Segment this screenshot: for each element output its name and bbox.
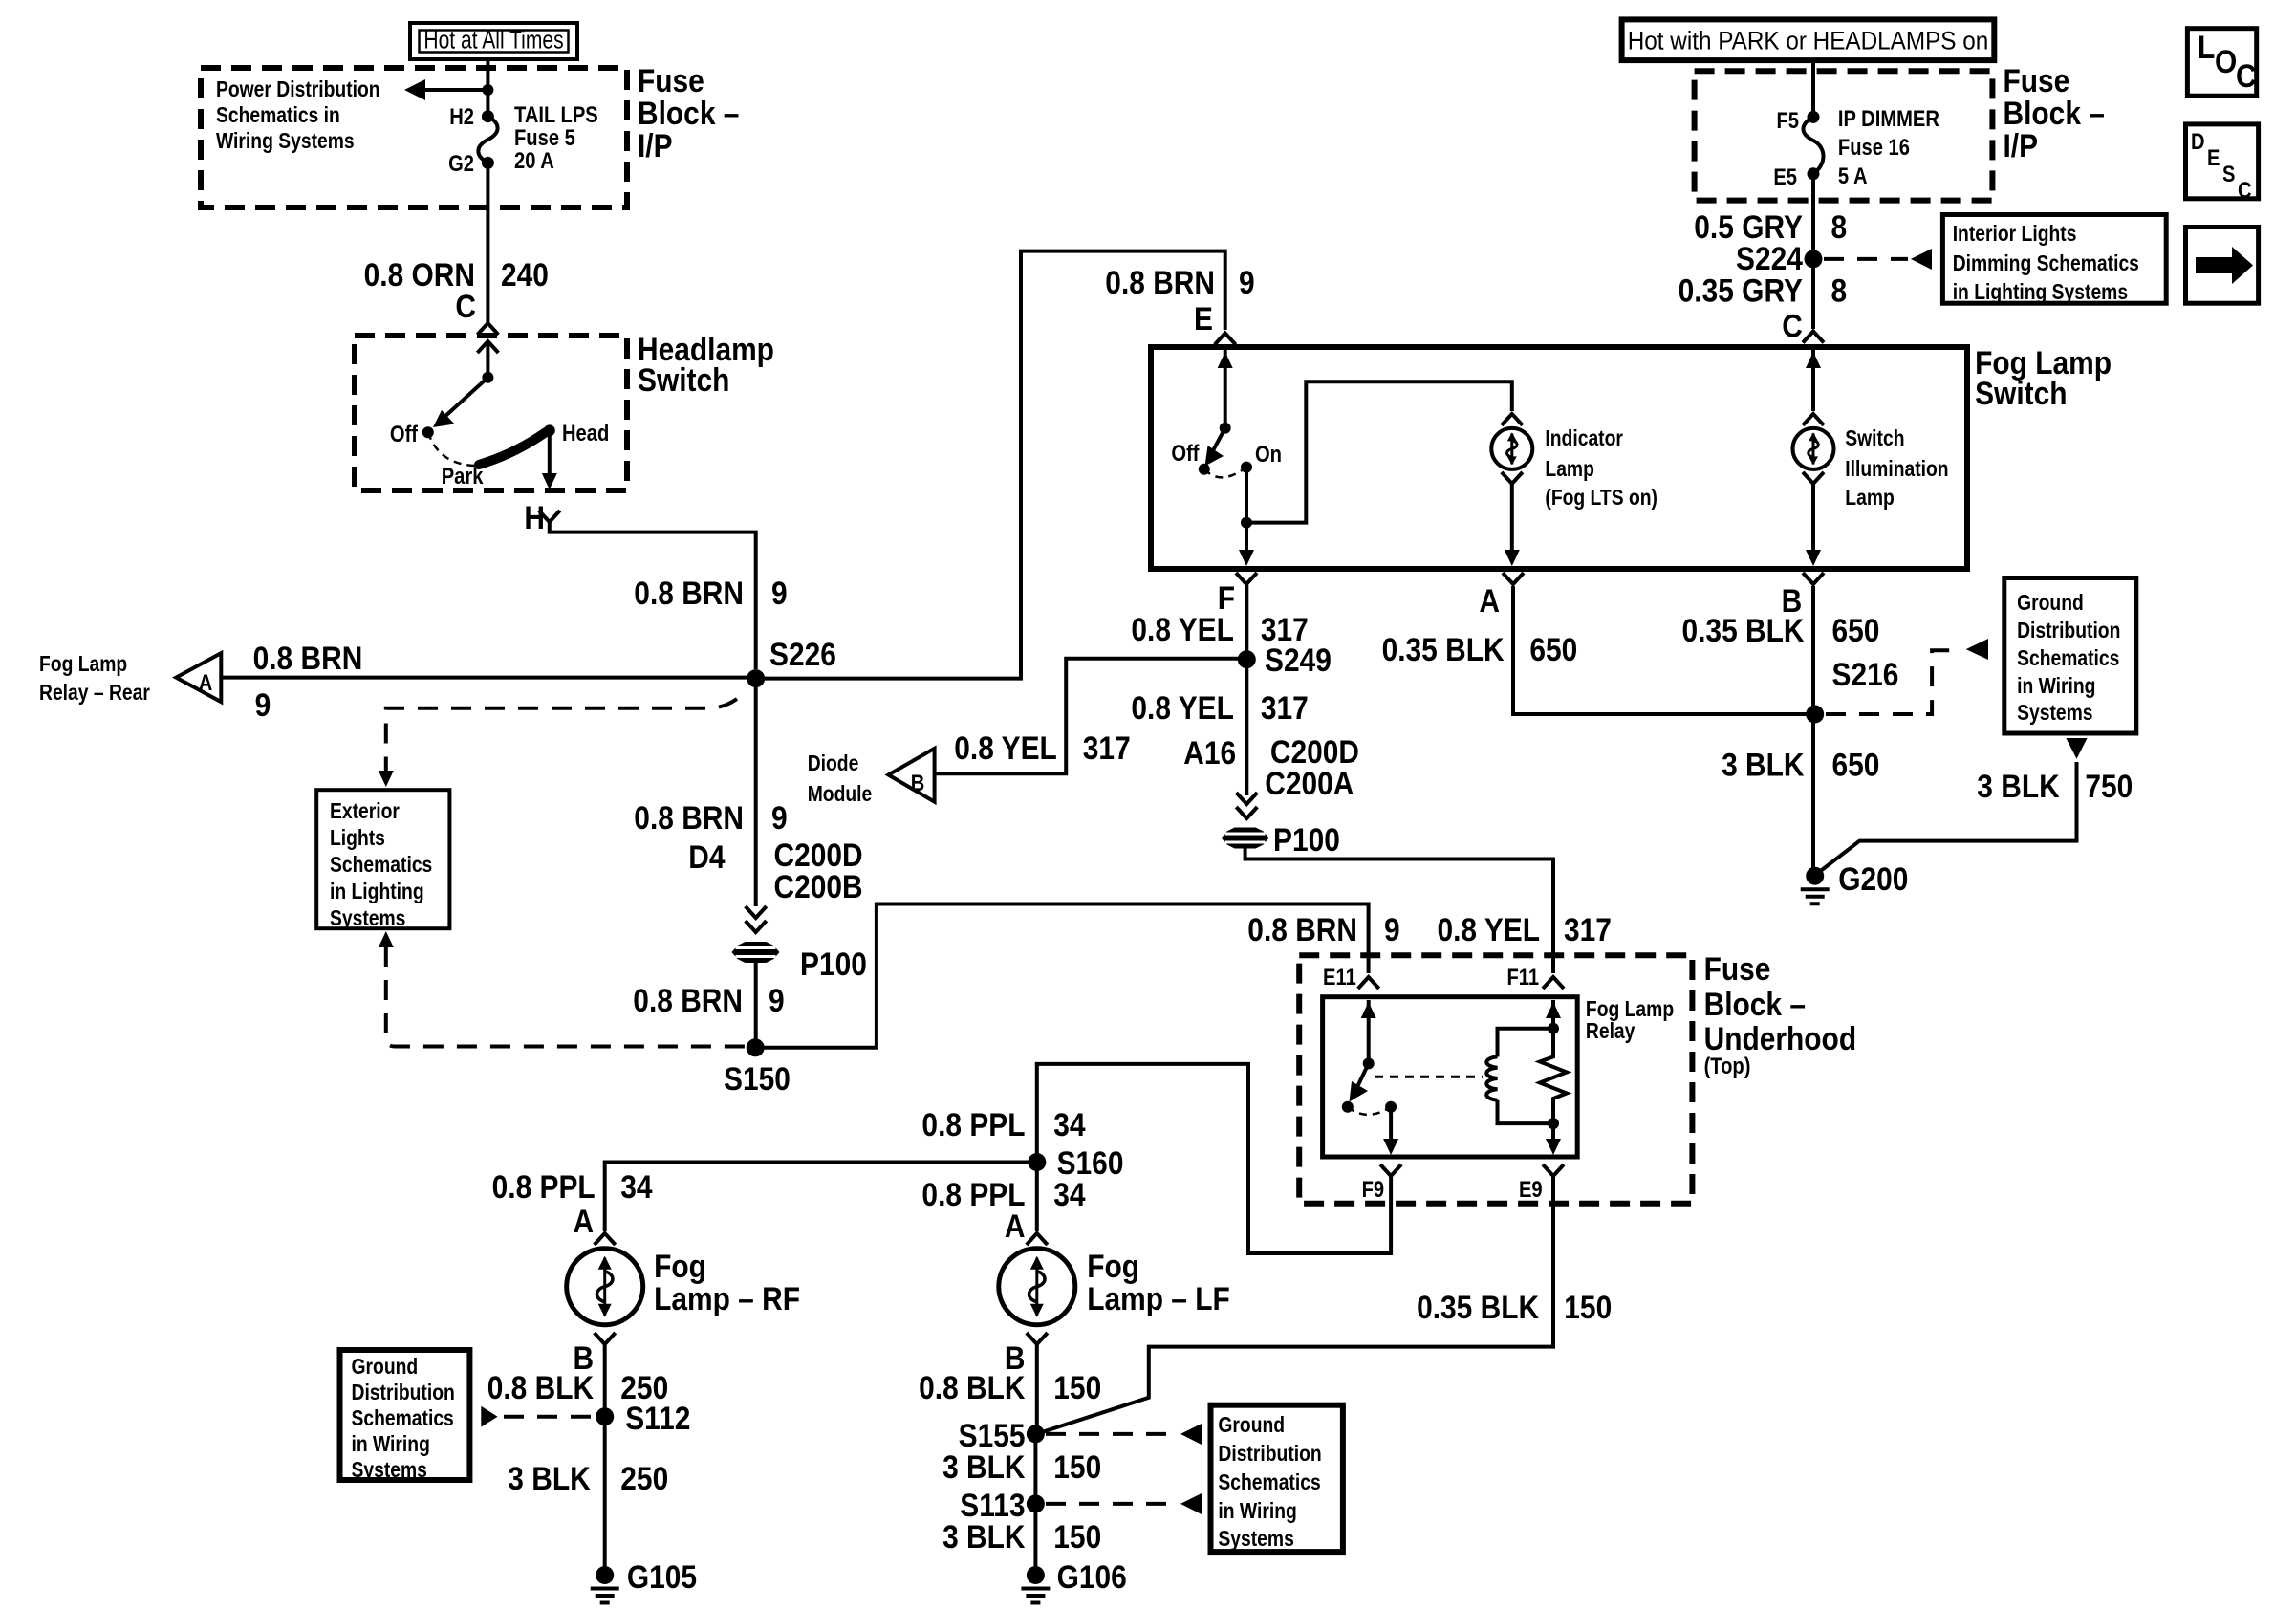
svg-text:Schematics: Schematics: [330, 854, 432, 878]
svg-text:O: O: [2215, 43, 2237, 79]
wire: S226 to fog lamp relay rear: [221, 676, 747, 680]
svg-text:0.8 BRN: 0.8 BRN: [634, 575, 744, 611]
wire: fuse E5 down to switch pin C: [1811, 174, 1815, 329]
svg-text:150: 150: [1053, 1369, 1101, 1405]
svg-text:E11: E11: [1323, 964, 1356, 990]
label: Fog Lamp - LF: [1087, 1248, 1230, 1316]
svg-text:On: On: [1255, 441, 1282, 467]
wire: fuse output down to headlamp switch: [486, 163, 489, 322]
splice S216: [1806, 656, 1898, 723]
label: 0.8 BRN 9 (relay rear feed): [253, 640, 363, 723]
svg-text:Ground: Ground: [352, 1356, 419, 1380]
svg-text:Schematics: Schematics: [2017, 647, 2119, 671]
relay coil: [1486, 1023, 1559, 1129]
note: Indicator Lamp (Fog LTS on): [1545, 427, 1657, 511]
svg-text:Relay: Relay: [1586, 1020, 1635, 1044]
note box: Ground Distribution Schematics in Wiring Systems (bottom left): [340, 1350, 470, 1482]
label: 0.8 PPL 34 (S160 to LF): [921, 1176, 1085, 1212]
wire: LF lamp down to S155: [1035, 1344, 1039, 1430]
wire: P100 to S150: [754, 963, 758, 1044]
svg-text:L: L: [2198, 29, 2215, 65]
svg-text:G200: G200: [1838, 860, 1908, 897]
svg-text:(Top): (Top): [1704, 1053, 1751, 1078]
dashed ref: S224 to interior lights dimming: [1824, 249, 1932, 270]
svg-text:8: 8: [1831, 272, 1848, 309]
svg-text:240: 240: [501, 256, 549, 293]
svg-text:B: B: [911, 770, 925, 795]
wire: S226 down to P100: [754, 679, 758, 906]
connector C200D/C200B chevrons: [746, 906, 767, 932]
svg-text:G106: G106: [1057, 1558, 1127, 1595]
splice S113: [960, 1487, 1045, 1523]
svg-text:Fog Lamp: Fog Lamp: [1586, 998, 1674, 1022]
wire: S155 to S113: [1033, 1434, 1037, 1501]
svg-text:IP DIMMER: IP DIMMER: [1838, 105, 1939, 131]
pin E11: [1323, 964, 1379, 990]
fuse: TAIL LPS Fuse 5 20 A: [448, 101, 598, 176]
dashed ref: S150 to exterior lights schematics: [379, 931, 747, 1047]
svg-text:Systems: Systems: [2017, 702, 2092, 726]
label: 3 BLK 750: [1977, 768, 2133, 804]
svg-text:Fog: Fog: [654, 1248, 706, 1284]
pin C fog lamp switch: [1782, 308, 1824, 344]
wire: C branch down to illumination lamp: [1806, 350, 1821, 411]
svg-text:0.8 YEL: 0.8 YEL: [1437, 911, 1540, 947]
label: Fuse Block - Underhood (Top): [1704, 950, 1857, 1078]
relay contact right to F9: [1383, 1101, 1398, 1155]
svg-text:Lamp: Lamp: [1845, 487, 1895, 511]
svg-text:Lights: Lights: [330, 827, 385, 851]
svg-text:34: 34: [620, 1168, 652, 1205]
svg-text:Park: Park: [442, 463, 484, 489]
wire: S112 to G105: [603, 1417, 607, 1568]
note: Fog Lamp Relay: [1586, 998, 1674, 1044]
label: 0.8 YEL 317 (F11 feed): [1437, 911, 1611, 947]
svg-text:9: 9: [771, 799, 788, 836]
label: 0.5 GRY 8: [1694, 208, 1847, 245]
svg-text:Fuse 16: Fuse 16: [1838, 134, 1910, 160]
svg-text:9: 9: [769, 982, 785, 1018]
svg-text:0.8 BRN: 0.8 BRN: [633, 982, 743, 1018]
wire: S150 to E11 fuse block underhood: [755, 904, 1368, 1048]
wire: into switch common: [482, 344, 493, 383]
pin E9: [1519, 1164, 1564, 1202]
splice S112: [596, 1400, 690, 1436]
pin H2: [449, 103, 494, 129]
svg-text:650: 650: [1832, 612, 1880, 648]
svg-text:0.8 BLK: 0.8 BLK: [919, 1369, 1025, 1405]
fog lamp RF: [567, 1249, 643, 1325]
label: Fog Lamp - RF: [654, 1248, 800, 1316]
label: Fog Lamp Switch: [1975, 344, 2112, 411]
splice S150: [724, 1038, 791, 1097]
connector C200D/C200A chevrons: [1236, 793, 1257, 818]
wire: header into fuse F5: [1811, 60, 1815, 117]
svg-text:0.8 YEL: 0.8 YEL: [1131, 689, 1234, 726]
svg-text:Exterior: Exterior: [330, 800, 400, 824]
label Park: [442, 463, 484, 489]
svg-text:C: C: [1782, 308, 1803, 344]
svg-text:Hot with PARK or HEADLAMPS on: Hot with PARK or HEADLAMPS on: [1628, 27, 1988, 54]
note: Power Distribution Schematics in Wiring Systems: [216, 78, 380, 154]
svg-text:20 A: 20 A: [514, 147, 554, 173]
pin F11: [1506, 964, 1564, 990]
wire: junction down to pin F with arrow: [1239, 523, 1254, 566]
svg-text:0.8 BLK: 0.8 BLK: [487, 1369, 594, 1405]
svg-text:F: F: [1218, 579, 1235, 616]
label: 3 BLK 650: [1722, 747, 1879, 783]
label: 0.35 GRY 8: [1679, 272, 1847, 309]
pin A fog lamp LF: [1005, 1207, 1048, 1245]
label: 0.8 YEL 317 (S249 down): [1131, 689, 1308, 726]
svg-text:250: 250: [620, 1460, 668, 1496]
svg-text:150: 150: [1564, 1289, 1612, 1325]
svg-text:in Wiring: in Wiring: [352, 1433, 430, 1457]
ref box DESC: [2186, 124, 2259, 204]
svg-text:8: 8: [1831, 208, 1848, 245]
relay switch arm E11: [1350, 1000, 1376, 1102]
pass-through grommet P100 (right): [1222, 821, 1340, 858]
svg-text:Switch: Switch: [1845, 427, 1904, 451]
pin F5: [1776, 107, 1819, 133]
svg-text:Wiring Systems: Wiring Systems: [216, 130, 355, 154]
svg-text:Lamp – RF: Lamp – RF: [654, 1280, 800, 1316]
pin H: [524, 499, 559, 535]
relay contact left: [1342, 1101, 1354, 1113]
svg-text:9: 9: [1239, 264, 1255, 300]
svg-text:A16: A16: [1183, 734, 1236, 771]
pin E fog lamp switch: [1194, 300, 1236, 344]
wire: pin B down to G200: [1811, 586, 1815, 868]
label: 3 BLK 150 (S155-S113): [942, 1448, 1101, 1485]
svg-text:317: 317: [1564, 911, 1612, 947]
label: 0.8 YEL 317 (diode module): [954, 729, 1130, 766]
svg-text:317: 317: [1083, 729, 1131, 766]
svg-text:0.8 YEL: 0.8 YEL: [1131, 611, 1234, 647]
wire: G200 branch to ground distribution box: [1818, 738, 2088, 873]
wire: S160 across to fog lamp RF: [605, 1163, 1037, 1232]
svg-text:Schematics: Schematics: [1218, 1471, 1320, 1495]
svg-text:F5: F5: [1776, 107, 1799, 133]
svg-text:0.35 GRY: 0.35 GRY: [1679, 272, 1803, 309]
svg-text:S150: S150: [724, 1060, 791, 1097]
svg-text:G2: G2: [448, 150, 474, 176]
label: 3 BLK 250: [508, 1460, 668, 1496]
wire: switch pin F down through S249 to C200: [1245, 585, 1248, 795]
label: 0.8 BLK 150: [919, 1369, 1101, 1405]
label: 0.8 BLK 250: [487, 1369, 668, 1405]
label: 0.8 BRN 9 (to switch E): [1105, 264, 1254, 300]
fuse block I/P dashed box (right): [1695, 71, 1993, 200]
svg-text:C200A: C200A: [1265, 765, 1354, 801]
svg-text:(Fog LTS on): (Fog LTS on): [1545, 487, 1657, 511]
wire: illumination lamp down to pin B with arrow: [1806, 484, 1821, 566]
svg-text:0.8 BRN: 0.8 BRN: [1247, 911, 1357, 947]
svg-text:P100: P100: [800, 946, 867, 982]
splice S249: [1238, 642, 1332, 678]
svg-text:F9: F9: [1362, 1176, 1385, 1202]
svg-text:Fuse: Fuse: [1704, 950, 1771, 987]
contact Off: [390, 421, 434, 446]
note: Diode Module: [808, 752, 873, 807]
ground G106: [1021, 1558, 1126, 1602]
fuse block underhood dashed box: [1299, 955, 1692, 1203]
svg-text:Ground: Ground: [1218, 1414, 1285, 1438]
svg-text:E: E: [1194, 300, 1213, 337]
svg-text:Dimming Schematics: Dimming Schematics: [1953, 252, 2139, 276]
svg-text:0.8 YEL: 0.8 YEL: [954, 729, 1057, 766]
label: Fuse Block - I/P (left): [638, 62, 739, 163]
svg-text:Underhood: Underhood: [1704, 1020, 1857, 1056]
wire: S160 down to fog lamp LF: [1035, 1163, 1039, 1232]
svg-text:A: A: [1005, 1207, 1026, 1244]
svg-text:S249: S249: [1265, 642, 1332, 678]
splice S226: [747, 636, 836, 687]
svg-text:F11: F11: [1506, 964, 1539, 990]
wiper thick arc Park-Head: [479, 432, 546, 465]
svg-text:Head: Head: [562, 420, 609, 446]
svg-text:H: H: [524, 499, 545, 535]
svg-text:650: 650: [1529, 631, 1577, 667]
ground G105: [591, 1558, 697, 1602]
svg-text:S112: S112: [625, 1400, 690, 1436]
svg-text:3 BLK: 3 BLK: [942, 1518, 1025, 1555]
svg-text:D: D: [2191, 128, 2205, 154]
svg-text:C: C: [455, 288, 476, 324]
svg-text:150: 150: [1053, 1448, 1101, 1485]
headlamp switch dashed box: [355, 336, 627, 490]
svg-text:A: A: [199, 669, 213, 695]
ref box LOC: [2187, 29, 2256, 97]
pin B fog lamp RF: [573, 1333, 615, 1376]
svg-text:Block –: Block –: [2004, 95, 2105, 131]
wire: H to S226: [550, 522, 756, 669]
svg-text:3 BLK: 3 BLK: [942, 1448, 1025, 1485]
svg-text:150: 150: [1053, 1518, 1101, 1555]
wire: E9 to S155: [1039, 1176, 1553, 1433]
svg-text:9: 9: [1384, 911, 1400, 947]
label: 0.8 BRN 9 (E11 feed): [1247, 911, 1399, 947]
svg-text:Indicator: Indicator: [1545, 427, 1623, 451]
indicator lamp: [1491, 414, 1532, 484]
svg-text:9: 9: [255, 686, 271, 723]
header box: Hot with PARK or HEADLAMPS on: [1622, 19, 1995, 60]
svg-text:Fog Lamp: Fog Lamp: [39, 653, 127, 677]
svg-text:3 BLK: 3 BLK: [508, 1460, 590, 1496]
svg-text:E9: E9: [1519, 1176, 1543, 1202]
note box: Exterior Lights Schematics in Lighting Systems: [316, 790, 449, 930]
svg-text:in Lighting: in Lighting: [330, 881, 424, 904]
svg-text:Distribution: Distribution: [2017, 620, 2120, 643]
svg-text:317: 317: [1261, 689, 1309, 726]
splice S160: [1028, 1144, 1123, 1181]
wire: RF lamp down to S112: [603, 1344, 607, 1413]
wire: P100 right over to F11: [1245, 848, 1553, 973]
label: pin D4 connector C200D C200B: [688, 837, 862, 904]
relay dashed actuating link: [1375, 1076, 1483, 1078]
svg-text:I/P: I/P: [638, 127, 673, 163]
svg-text:A: A: [1479, 582, 1500, 619]
header box: Hot at All Times: [410, 23, 577, 59]
svg-text:Schematics: Schematics: [352, 1407, 454, 1431]
switch illumination lamp: [1793, 414, 1834, 484]
fog lamp relay box: [1323, 997, 1578, 1157]
connector ref A triangle (fog lamp relay rear): [176, 653, 221, 702]
contact Head: [544, 420, 609, 446]
label: Fuse Block - I/P (right): [2004, 62, 2105, 163]
contact On: [1241, 441, 1282, 472]
wire: pin A down and over to S216: [1513, 586, 1807, 714]
svg-text:H2: H2: [449, 103, 474, 129]
fog lamp LF: [999, 1249, 1075, 1325]
svg-text:650: 650: [1832, 747, 1880, 783]
svg-text:Systems: Systems: [352, 1459, 427, 1483]
svg-text:0.8 BRN: 0.8 BRN: [1105, 264, 1215, 300]
note box: Ground Distribution Schematics in Wiring Systems (right): [2004, 578, 2136, 734]
dashed travel arc Off to On: [1204, 468, 1246, 478]
svg-text:Distribution: Distribution: [1218, 1443, 1321, 1467]
svg-text:S226: S226: [769, 636, 836, 672]
svg-text:C200B: C200B: [774, 868, 863, 904]
svg-text:34: 34: [1053, 1176, 1085, 1212]
wire: E branch to switch pivot: [1218, 350, 1233, 434]
label: Headlamp Switch: [638, 331, 774, 398]
svg-text:G105: G105: [627, 1558, 697, 1595]
svg-text:C: C: [2236, 57, 2257, 94]
diode module ref wire: [935, 659, 1239, 774]
svg-text:S216: S216: [1832, 656, 1899, 692]
svg-text:Lamp: Lamp: [1545, 458, 1594, 482]
label: 0.8 ORN 240: [364, 256, 549, 293]
label: 0.35 BLK 150: [1417, 1289, 1612, 1325]
svg-text:P100: P100: [1273, 821, 1340, 858]
svg-text:in Lighting Systems: in Lighting Systems: [1953, 281, 2128, 305]
svg-text:Distribution: Distribution: [352, 1382, 455, 1405]
pin F: [1218, 573, 1257, 616]
dashed ref: S113 to ground distribution: [1046, 1493, 1202, 1514]
svg-text:E5: E5: [1773, 163, 1797, 189]
svg-text:in Wiring: in Wiring: [2017, 675, 2095, 699]
wire: indicator lamp down to pin A with arrow: [1505, 484, 1520, 566]
svg-text:0.8 PPL: 0.8 PPL: [492, 1168, 596, 1205]
svg-text:Systems: Systems: [330, 907, 405, 931]
relay resistor: [1540, 1000, 1567, 1123]
label: 0.35 BLK 650 (B side): [1681, 612, 1879, 648]
wire: battery feed from header into fuse block: [486, 59, 489, 117]
dashed travel arc Off to Park: [428, 432, 480, 466]
wire: S226 up and over to fog lamp switch pin E: [756, 251, 1225, 679]
wire: S113 to G106: [1033, 1504, 1037, 1568]
label: 0.35 BLK 650 (A side): [1382, 631, 1578, 667]
svg-text:Illumination: Illumination: [1845, 458, 1948, 482]
switch arm toward Off: [1205, 428, 1225, 467]
splice S155: [959, 1417, 1045, 1453]
svg-text:Lamp – LF: Lamp – LF: [1087, 1280, 1230, 1316]
svg-text:Switch: Switch: [1975, 375, 2067, 411]
note: Fog Lamp Relay - Rear: [39, 653, 150, 706]
svg-text:5 A: 5 A: [1838, 163, 1868, 188]
connector ref B triangle (diode module): [888, 749, 934, 802]
svg-text:0.8 BRN: 0.8 BRN: [253, 640, 363, 676]
pin B: [1782, 573, 1824, 619]
label: 3 BLK 150 (S113-G106): [942, 1518, 1101, 1555]
ref box forward arrow: [2186, 228, 2259, 304]
svg-text:0.35 BLK: 0.35 BLK: [1417, 1289, 1539, 1325]
dashed ref: S155 to ground distribution: [1046, 1424, 1202, 1445]
svg-text:I/P: I/P: [2004, 127, 2039, 163]
splice S224: [1736, 240, 1822, 276]
svg-text:D4: D4: [688, 838, 725, 875]
svg-text:Relay – Rear: Relay – Rear: [39, 682, 150, 706]
wire: Head contact down with arrow: [542, 430, 557, 490]
contact Off (fog switch): [1171, 440, 1209, 474]
svg-text:Off: Off: [390, 421, 419, 446]
wire: resistor bottom to E9 with arrow: [1546, 1123, 1561, 1155]
wire: F9 to S160: [1037, 1064, 1391, 1253]
ground G200: [1801, 860, 1909, 903]
svg-text:Ground: Ground: [2017, 592, 2084, 616]
svg-text:E: E: [2207, 144, 2220, 170]
svg-text:Switch: Switch: [638, 361, 729, 398]
label: 0.8 BRN 9 (S226 to C200): [634, 799, 787, 836]
svg-text:3 BLK: 3 BLK: [1722, 747, 1804, 783]
svg-text:Systems: Systems: [1218, 1528, 1293, 1552]
svg-text:Fuse: Fuse: [638, 62, 704, 98]
svg-text:0.35 BLK: 0.35 BLK: [1681, 612, 1804, 648]
svg-text:C: C: [2238, 177, 2252, 203]
svg-text:34: 34: [1053, 1106, 1085, 1142]
svg-text:0.8 BRN: 0.8 BRN: [634, 799, 744, 836]
label: pin A16 connector C200D C200A: [1183, 733, 1359, 801]
pass-through grommet P100 (left): [732, 942, 867, 982]
svg-text:Off: Off: [1171, 440, 1200, 466]
switch wiper arrow toward Off: [433, 378, 487, 427]
svg-text:A: A: [573, 1203, 594, 1239]
note box: Ground Distribution Schematics in Wiring Systems (bottom middle): [1211, 1405, 1343, 1552]
relay dashed travel arc: [1348, 1107, 1391, 1115]
svg-text:Schematics in: Schematics in: [216, 104, 340, 128]
svg-text:Power Distribution: Power Distribution: [216, 78, 380, 102]
svg-text:Fog: Fog: [1087, 1248, 1139, 1284]
note: Switch Illumination Lamp: [1845, 427, 1948, 511]
dashed ref: S216 to ground distribution: [1826, 639, 1988, 714]
svg-text:0.35 BLK: 0.35 BLK: [1382, 631, 1505, 667]
wire: On contact down to junction: [1241, 468, 1252, 529]
svg-text:Fuse: Fuse: [2004, 62, 2070, 98]
svg-text:3 BLK: 3 BLK: [1977, 768, 2059, 804]
label: 0.8 BRN 9 (headlamp to S226): [634, 575, 787, 611]
dashed ref: S226 to exterior lights schematics: [379, 699, 737, 787]
label: 0.8 YEL 317 (F to S249): [1131, 611, 1308, 647]
pin C headlamp switch: [455, 288, 498, 353]
svg-text:750: 750: [2085, 768, 2133, 804]
fuse: IP DIMMER Fuse 16 5 A: [1773, 105, 1939, 189]
pin B fog lamp LF: [1005, 1333, 1048, 1376]
pin F9: [1362, 1164, 1402, 1202]
svg-text:Block –: Block –: [638, 95, 739, 131]
svg-text:Block –: Block –: [1704, 986, 1806, 1022]
fuse block I/P dashed box (left): [201, 68, 627, 207]
pin A: [1479, 573, 1524, 619]
svg-text:Diode: Diode: [808, 752, 859, 776]
svg-text:S: S: [2222, 161, 2235, 186]
arrow: feed to power distribution: [404, 79, 493, 100]
dashed ref: ground distribution to S112: [481, 1406, 596, 1427]
svg-text:0.8 PPL: 0.8 PPL: [921, 1106, 1025, 1142]
label: 0.8 PPL 34 (to RF): [492, 1168, 653, 1205]
wire: junction over and up to indicator lamp: [1246, 381, 1512, 522]
svg-text:in Wiring: in Wiring: [1218, 1500, 1296, 1524]
